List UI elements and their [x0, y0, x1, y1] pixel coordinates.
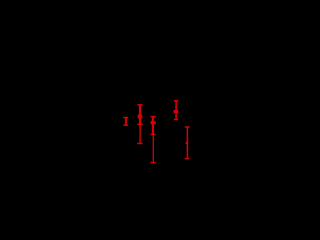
E5 stem	[186, 127, 188, 159]
E2 upper stem	[139, 105, 141, 125]
E2 lower stem	[139, 124, 141, 143]
error bar E3	[151, 117, 156, 163]
E4 top cap	[174, 100, 179, 102]
E3 bottom cap	[151, 162, 156, 164]
marker M4 (square)	[174, 110, 179, 113]
E2 top cap	[137, 104, 142, 106]
marker M2 (square)	[138, 115, 143, 119]
E2 bottom cap	[137, 143, 142, 145]
error bar E5	[185, 127, 190, 159]
error bar E2	[137, 105, 142, 144]
E3 mid cap	[151, 133, 156, 135]
E1 bottom cap	[123, 124, 128, 126]
E1 stem	[125, 118, 127, 126]
marker M3 (square)	[151, 121, 156, 124]
E5 bottom cap	[185, 158, 190, 160]
E3 top cap	[151, 116, 156, 118]
E3 lower stem	[152, 134, 154, 162]
E2 mid cap	[137, 123, 142, 125]
E4 bottom cap	[174, 119, 178, 121]
error bar E1	[123, 118, 128, 126]
error bar E4	[174, 101, 179, 120]
E4 stem	[175, 101, 177, 120]
E3 upper stem	[152, 117, 154, 135]
E1 top cap	[123, 117, 128, 119]
E5 top cap	[185, 126, 190, 128]
marker M5 (small square)	[186, 142, 188, 144]
